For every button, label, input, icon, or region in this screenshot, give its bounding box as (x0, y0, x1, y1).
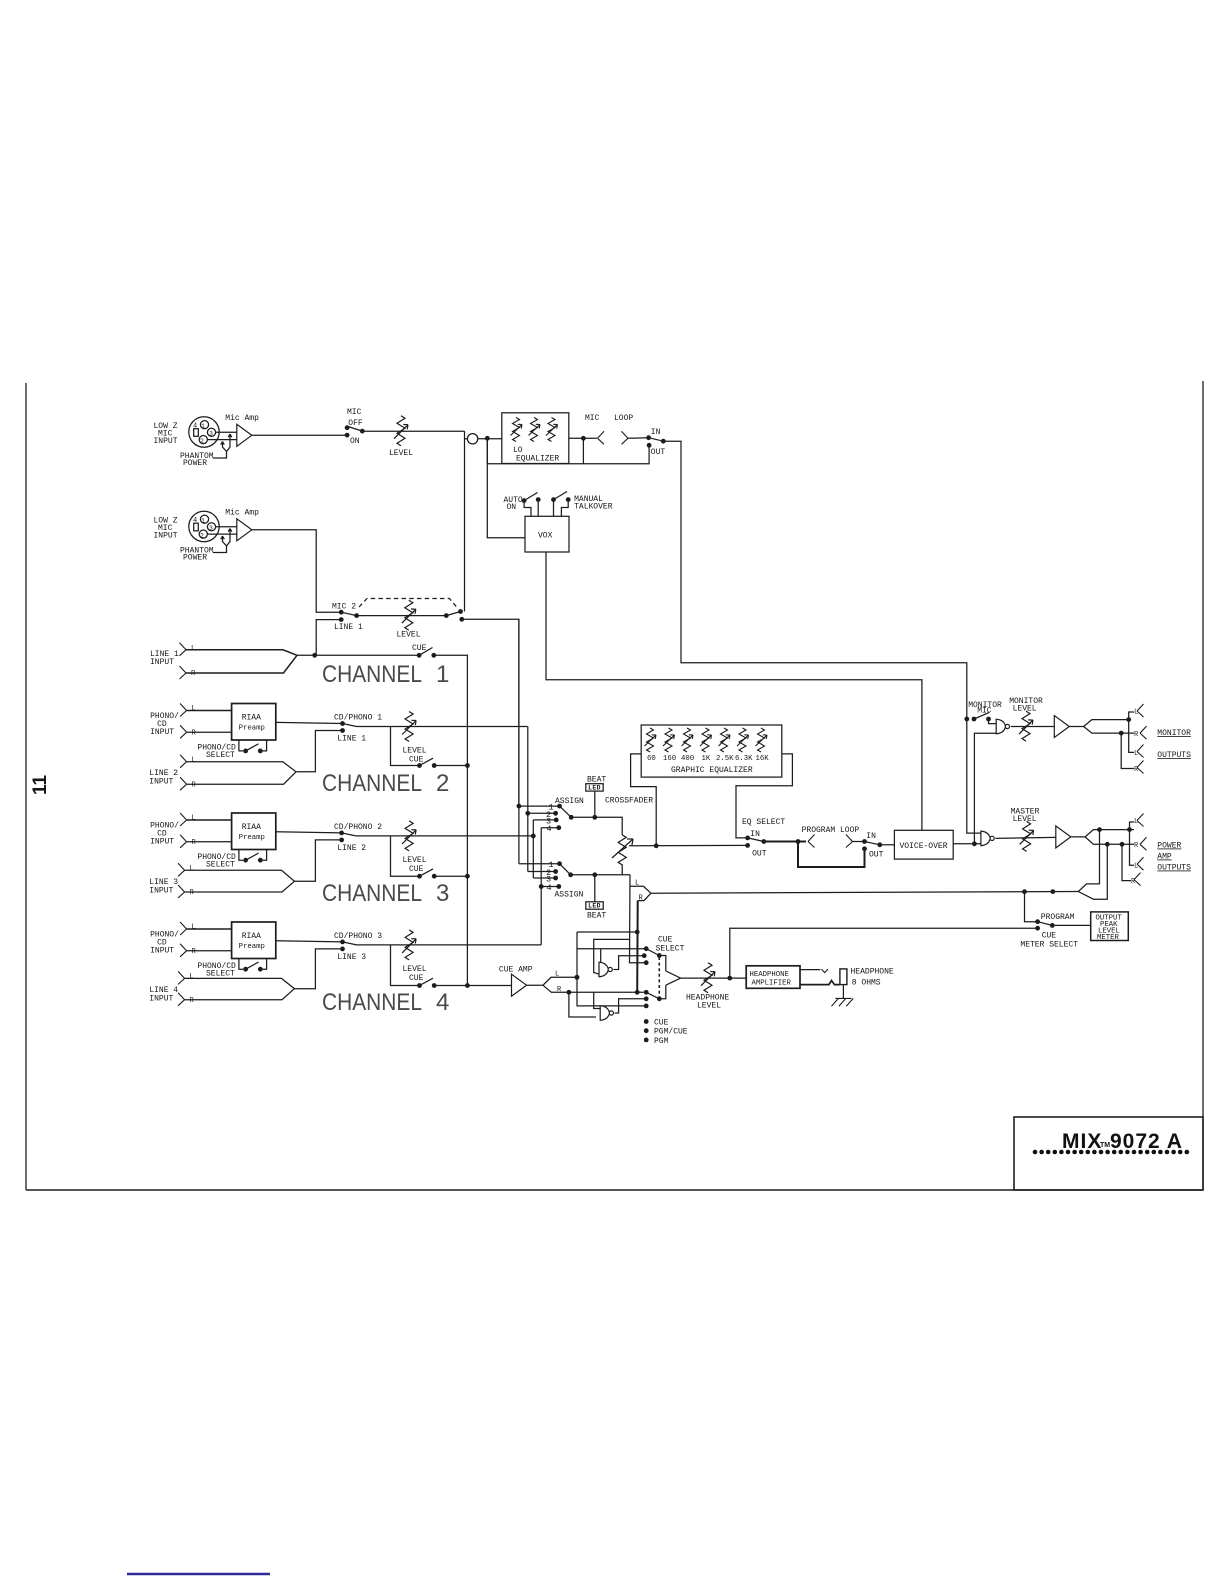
svg-text:2.5K: 2.5K (716, 755, 734, 763)
svg-text:LEVEL: LEVEL (1013, 815, 1037, 824)
svg-text:Preamp: Preamp (239, 725, 265, 733)
svg-text:LEVEL: LEVEL (697, 1002, 721, 1011)
svg-text:ASSIGN: ASSIGN (555, 891, 584, 900)
bus 4 (540, 828, 542, 945)
wire phones out tip (800, 969, 821, 971)
svg-text:POWER: POWER (183, 459, 207, 468)
wire RIAA out (276, 722, 343, 723)
svg-text:11: 11 (30, 775, 51, 796)
wire PGM L vertical (630, 875, 647, 963)
jack mic loop return (622, 431, 629, 444)
svg-text:R: R (192, 948, 197, 956)
svg-text:RIAA: RIAA (242, 932, 261, 941)
wire tangle h1 (577, 931, 637, 933)
wire to bus 1 (462, 619, 519, 806)
svg-text:LEVEL: LEVEL (403, 965, 427, 974)
wire PGM line (651, 892, 1078, 894)
svg-text:1: 1 (201, 423, 205, 430)
logo dot row (1033, 1150, 1038, 1155)
switch mic loop IN/OUT (646, 435, 651, 440)
svg-text:TM: TM (1100, 1142, 1110, 1149)
svg-text:SELECT: SELECT (206, 969, 235, 978)
wire ch4 to bus 4 (357, 944, 542, 946)
svg-text:400: 400 (681, 755, 694, 763)
bus 3 (532, 820, 534, 878)
phantom power feed arrows mic2 (213, 546, 227, 553)
svg-text:16K: 16K (756, 755, 770, 763)
svg-text:CD/PHONO 2: CD/PHONO 2 (334, 823, 382, 832)
svg-text:2: 2 (436, 770, 449, 797)
potentiometer mic LEVEL (394, 416, 408, 446)
svg-text:MIX: MIX (1062, 1130, 1102, 1153)
wire cue-R tap to node R top (594, 992, 601, 1008)
svg-text:L: L (192, 705, 196, 713)
svg-text:LEVEL: LEVEL (1013, 705, 1037, 714)
speaker HEADPHONE 8 OHMS (840, 969, 847, 985)
jack MONITOR OUT 1 L (1129, 712, 1134, 720)
jack MONITOR OUT 2 L (1129, 720, 1134, 753)
switch ASSIGN A (517, 804, 522, 809)
wire VO monitor tap (974, 733, 996, 844)
svg-text:R: R (1134, 842, 1139, 850)
svg-text:1K: 1K (702, 755, 711, 763)
wire through level pot (357, 615, 447, 617)
switch MANUAL TALKOVER (551, 497, 556, 502)
jack LINE 2 INPUT L (180, 755, 187, 768)
svg-text:POWER: POWER (183, 554, 207, 563)
wire RIAA out ch3 (276, 832, 342, 833)
patch point (464, 431, 466, 446)
svg-text:PGM: PGM (654, 1037, 669, 1046)
XLR connector J1 (189, 417, 219, 447)
jack LINE 3 INPUT L (178, 863, 185, 876)
svg-text:INPUT: INPUT (150, 838, 174, 847)
svg-text:CUE AMP: CUE AMP (499, 966, 533, 975)
svg-text:L: L (1134, 818, 1138, 826)
svg-text:OUT: OUT (869, 851, 884, 860)
jack program loop return (846, 835, 853, 848)
jack program loop send (808, 835, 815, 848)
wire to headphone level (681, 977, 747, 979)
switch PHONO/CD SELECT ch3 (239, 850, 267, 861)
crossfader VR (618, 835, 626, 876)
wire switch to patch point (362, 430, 464, 432)
svg-text:L: L (192, 815, 196, 823)
wire meter merge funnel (1078, 830, 1107, 900)
wire node L out to contact 2 (614, 956, 645, 970)
RIAA preamp U2 (232, 704, 276, 741)
wire to meter (1052, 924, 1090, 926)
svg-text:INPUT: INPUT (154, 437, 178, 446)
svg-text:R: R (639, 895, 644, 903)
jack PHONO/CD 1 input L (180, 704, 187, 717)
jack PHONO/CD 1 input R (180, 725, 187, 738)
svg-text:IN: IN (651, 428, 661, 437)
jack MONITOR OUT 2 R (1121, 733, 1134, 768)
bus 1 (518, 619, 520, 863)
jack mic loop send (598, 431, 605, 444)
svg-text:LEVEL: LEVEL (403, 747, 427, 756)
svg-text:9072 A: 9072 A (1110, 1130, 1183, 1153)
svg-text:ASSIGN: ASSIGN (555, 797, 584, 806)
GRAPHIC EQUALIZER box (641, 725, 782, 777)
svg-text:LINE 3: LINE 3 (337, 953, 366, 962)
svg-text:R: R (192, 839, 197, 847)
LED beat upper (586, 784, 603, 791)
svg-text:EQ SELECT: EQ SELECT (742, 818, 785, 827)
svg-text:160: 160 (663, 755, 676, 763)
svg-text:2: 2 (200, 438, 204, 445)
assign A contact wires (519, 805, 560, 807)
summing node monitor (996, 719, 1009, 734)
jack POWER AMP OUT 1 R (1140, 837, 1147, 850)
blue footer line (127, 1573, 270, 1575)
potentiometer ch1 LEVEL (402, 600, 416, 630)
op-amp Mic Amp 1 (237, 424, 252, 446)
svg-text:HEADPHONE: HEADPHONE (750, 971, 789, 979)
svg-text:GRAPHIC EQUALIZER: GRAPHIC EQUALIZER (671, 766, 753, 775)
svg-text:3: 3 (209, 431, 213, 438)
svg-text:L: L (1134, 750, 1138, 758)
potentiometer HEADPHONE LEVEL (701, 963, 715, 993)
wire amp2 to MIC2 contact (252, 530, 341, 612)
switch MONITOR MIC (964, 717, 969, 722)
wire cue-L tap to node top (600, 949, 602, 965)
svg-text:SELECT: SELECT (206, 860, 235, 869)
svg-text:CUE: CUE (412, 644, 427, 653)
node ch1 line riser (312, 653, 317, 658)
svg-text:CD/PHONO 1: CD/PHONO 1 (334, 714, 382, 723)
svg-text:BEAT: BEAT (587, 912, 606, 921)
RIAA preamp U4 (232, 922, 276, 959)
svg-text:4: 4 (436, 989, 449, 1016)
wire cue feed to meter select (730, 928, 1038, 978)
svg-text:Preamp: Preamp (239, 943, 265, 951)
svg-text:LEVEL: LEVEL (389, 449, 413, 458)
op-amp Mic Amp 2 (237, 519, 252, 541)
svg-text:MIC: MIC (977, 707, 992, 716)
svg-text:R: R (192, 782, 197, 790)
wire pin2 to amp (207, 439, 236, 441)
VOICE-OVER box (894, 830, 953, 859)
wire mic2 riser to patch point (464, 446, 466, 612)
svg-text:4: 4 (547, 883, 552, 893)
summing node phones R (600, 1006, 613, 1021)
wire pin3 to amp (216, 431, 237, 433)
wire line3 merge funnel (185, 870, 295, 892)
potentiometer MONITOR LEVEL (1019, 711, 1033, 741)
gang link dashed (359, 599, 457, 608)
wire cue-L to contact 1 (577, 948, 646, 950)
potentiometer ch4 LEVEL (402, 930, 416, 960)
potentiometer ch3 LEVEL (402, 821, 416, 851)
svg-text:OUT: OUT (752, 850, 767, 859)
svg-text:Mic Amp: Mic Amp (225, 509, 259, 518)
node mic bus junction (485, 436, 490, 441)
svg-text:CUE: CUE (409, 974, 424, 983)
svg-text:LINE 2: LINE 2 (337, 844, 366, 853)
svg-text:L: L (635, 880, 639, 888)
wire line4 merge funnel (185, 978, 295, 999)
switch PHONO/CD SELECT ch2 (239, 740, 267, 751)
svg-text:CROSSFADER: CROSSFADER (605, 797, 653, 806)
wire crossfader wiper out (629, 844, 748, 846)
svg-text:4: 4 (547, 824, 552, 834)
svg-text:INPUT: INPUT (149, 995, 173, 1004)
switch CD/PHONO 3 / LINE 3 (340, 940, 345, 945)
jack PHONO/CD 3 input R (180, 944, 187, 957)
switch PROGRAM LOOP IN/OUT (862, 839, 867, 844)
svg-text:LOOP: LOOP (614, 414, 633, 423)
wire pin3 to amp2 (216, 526, 237, 528)
switch AUTO ON (522, 498, 527, 503)
svg-text:VOICE-OVER: VOICE-OVER (900, 842, 948, 851)
svg-text:ON: ON (350, 437, 360, 446)
wire VOX output to voice-over (546, 552, 922, 830)
svg-text:L: L (192, 924, 196, 932)
svg-text:L: L (1134, 709, 1138, 717)
svg-text:R: R (191, 670, 196, 678)
op-amp master (1056, 826, 1071, 848)
svg-text:MIC 2: MIC 2 (332, 603, 356, 612)
svg-text:OUT: OUT (651, 448, 666, 457)
jack POWER AMP OUT 1 L (1130, 822, 1135, 830)
jack MONITOR OUT 1 R (1140, 726, 1147, 739)
svg-text:METER SELECT: METER SELECT (1020, 941, 1078, 950)
wire ch3 cue tap (391, 836, 420, 876)
wire pin2 to amp2 (207, 533, 236, 535)
wire phones out to speaker (800, 981, 840, 985)
wire cue tap ch1 (315, 654, 419, 656)
wire assign A to crossfader top (571, 817, 622, 835)
svg-text:INPUT: INPUT (150, 947, 174, 956)
svg-text:8 OHMS: 8 OHMS (852, 979, 881, 988)
wire tangle v1 cue-L riser (577, 932, 646, 1006)
switch CD/PHONO 1 / LINE 1 (340, 721, 345, 726)
svg-text:OUTPUTS: OUTPUTS (1157, 864, 1191, 873)
potentiometer ch2 LEVEL (402, 712, 416, 742)
wire PGM split funnel to headphone feed (630, 886, 651, 900)
svg-text:AMPLIFIER: AMPLIFIER (752, 979, 792, 987)
svg-text:2: 2 (200, 533, 204, 540)
svg-text:MONITOR: MONITOR (1157, 729, 1191, 738)
wire box to loop send (569, 437, 597, 439)
OUTPUT PEAK LEVEL METER box (1091, 912, 1129, 941)
svg-text:PGM/CUE: PGM/CUE (654, 1028, 688, 1037)
svg-text:INPUT: INPUT (150, 658, 174, 667)
gang link dashed cue select (658, 957, 660, 997)
svg-text:R: R (192, 730, 197, 738)
wire GEQ left to crossfader line (631, 754, 657, 846)
wire eq select to program loop (764, 841, 806, 843)
svg-text:L: L (192, 757, 196, 765)
switch ASSIGN B (519, 863, 560, 865)
svg-text:PROGRAM LOOP: PROGRAM LOOP (802, 826, 860, 835)
wire pgm-R tap to node R bottom (569, 992, 596, 1017)
svg-text:3: 3 (436, 880, 449, 907)
wire cue split funnel (527, 977, 577, 992)
ground (832, 998, 854, 1006)
VOX box (525, 516, 569, 552)
svg-text:R: R (1134, 731, 1139, 739)
svg-text:1: 1 (201, 518, 205, 525)
svg-text:CUE: CUE (409, 865, 424, 874)
jack PHONO/CD 3 input L (180, 922, 187, 935)
wire return to IN contact (628, 437, 649, 440)
jack LINE 2 INPUT R (180, 777, 187, 790)
svg-text:R: R (1131, 878, 1136, 886)
HEADPHONE AMPLIFIER box (746, 966, 800, 989)
svg-text:ON: ON (507, 503, 517, 512)
svg-text:CHANNEL: CHANNEL (322, 770, 422, 797)
wire assign B to crossfader bottom (571, 874, 630, 876)
svg-text:CUE: CUE (658, 936, 673, 945)
bus 2 (527, 727, 529, 872)
svg-text:L: L (191, 645, 195, 653)
wire ch4 cue tap (391, 945, 420, 986)
svg-text:BEAT: BEAT (587, 776, 606, 785)
legend dots (644, 1019, 649, 1024)
jack LINE 1 INPUT R (180, 666, 187, 679)
switch MIC OFF/ON (345, 425, 350, 430)
svg-text:LEVEL: LEVEL (397, 631, 421, 640)
svg-text:1: 1 (436, 661, 449, 688)
svg-text:OFF: OFF (348, 419, 363, 428)
svg-text:R: R (1134, 766, 1139, 774)
frame bottom border (26, 1189, 1203, 1191)
jack LINE 3 INPUT R (178, 885, 185, 898)
op-amp monitor (1054, 716, 1069, 738)
svg-text:AMP: AMP (1157, 853, 1172, 862)
svg-text:IN: IN (866, 832, 876, 841)
svg-text:LINE 1: LINE 1 (337, 735, 366, 744)
wire line2 merge funnel (187, 762, 296, 785)
svg-text:RIAA: RIAA (242, 823, 261, 832)
switch ch2 CUE (417, 763, 422, 768)
switch PHONO/CD SELECT ch4 (239, 959, 267, 970)
svg-text:CHANNEL: CHANNEL (322, 661, 422, 688)
switch ch1 CUE (417, 653, 422, 658)
node ch3 line joins bus 3 (531, 834, 536, 839)
switch CD/PHONO 2 / LINE 2 (339, 831, 344, 836)
wire ch3 to bus 3 (356, 835, 534, 837)
switch CUE SELECT 6 contacts (644, 946, 649, 951)
svg-text:EQUALIZER: EQUALIZER (516, 455, 559, 464)
jack PHONO/CD 2 input L (180, 813, 187, 826)
wire cue-R line to contact (569, 991, 646, 993)
wire RIAA out ch4 (276, 941, 343, 942)
svg-text:SELECT: SELECT (206, 751, 235, 760)
svg-text:R: R (190, 889, 195, 897)
svg-text:L: L (190, 865, 194, 873)
svg-text:LED: LED (588, 903, 601, 910)
svg-text:POWER: POWER (1157, 842, 1181, 851)
svg-text:HEADPHONE: HEADPHONE (851, 968, 894, 977)
svg-text:L: L (190, 973, 194, 981)
jack PHONO/CD 2 input R (180, 835, 187, 848)
svg-text:CUE: CUE (654, 1019, 669, 1028)
frame right border (1202, 381, 1204, 1190)
svg-text:CUE: CUE (1042, 932, 1057, 941)
svg-text:Preamp: Preamp (239, 834, 265, 842)
svg-text:6.3K: 6.3K (735, 755, 753, 763)
wire speaker to ground (842, 985, 844, 999)
wire line1 merge funnel (186, 650, 297, 673)
jack POWER AMP OUT 2 R (1122, 844, 1131, 880)
jack LINE 4 INPUT L (178, 971, 185, 984)
svg-text:IN: IN (750, 830, 760, 839)
svg-text:INPUT: INPUT (149, 887, 173, 896)
LO EQUALIZER box (502, 413, 569, 464)
switch MIC 2 / LINE 1 (339, 610, 344, 615)
svg-text:OUTPUTS: OUTPUTS (1157, 751, 1191, 760)
wire ch2 to bus 2 (357, 726, 528, 728)
summing node phones L (599, 962, 612, 977)
switch ch3 CUE (417, 874, 422, 879)
wire cue bus to cue amp (467, 985, 511, 987)
switch ch1 route (mic bus / bus 1) (444, 613, 449, 618)
svg-text:L: L (1134, 863, 1138, 871)
svg-text:CHANNEL: CHANNEL (322, 989, 422, 1016)
frame left border (25, 383, 27, 1190)
wire node to master level (996, 837, 1056, 838)
svg-text:CHANNEL: CHANNEL (322, 880, 422, 907)
wire select merge funnel (659, 956, 680, 999)
svg-text:INPUT: INPUT (150, 728, 174, 737)
jack LINE 1 INPUT L (180, 643, 187, 656)
svg-text:SELECT: SELECT (656, 945, 685, 954)
switch METER SELECT (1025, 892, 1038, 922)
wire loop bypass under box (487, 438, 649, 463)
svg-text:4: 4 (193, 517, 197, 525)
switch ch4 CUE (417, 983, 422, 988)
wire to voice-over (880, 844, 895, 846)
wire mic line A to right (663, 441, 981, 833)
svg-text:60: 60 (647, 755, 656, 763)
switch EQ SELECT (745, 836, 750, 841)
svg-text:L: L (555, 971, 559, 979)
svg-text:MIC: MIC (585, 414, 600, 423)
wire program loop bypass (798, 842, 865, 868)
svg-text:TALKOVER: TALKOVER (574, 503, 613, 512)
wire PGM R vertical (636, 901, 639, 993)
svg-text:INPUT: INPUT (154, 532, 178, 541)
svg-text:3: 3 (209, 525, 213, 532)
node VOX sense tap (487, 438, 525, 538)
wire VO out to master node (953, 843, 981, 845)
XLR connector J2 (189, 511, 219, 541)
LED beat lower (594, 875, 596, 902)
svg-text:LED: LED (588, 785, 601, 792)
wire node to monitor level (1011, 726, 1055, 728)
wire ch1 cue to cue bus (434, 655, 468, 985)
jack POWER AMP OUT 2 L (1130, 830, 1135, 866)
wire pgm-L tap to node (594, 939, 630, 974)
wire amp to switch (252, 434, 347, 436)
svg-text:R: R (190, 997, 195, 1005)
potentiometer MASTER LEVEL (1020, 821, 1034, 851)
svg-text:CD/PHONO 3: CD/PHONO 3 (334, 932, 382, 941)
svg-text:Mic Amp: Mic Amp (225, 414, 259, 423)
svg-text:LINE 1: LINE 1 (334, 623, 363, 632)
jack LINE 4 INPUT R (178, 993, 185, 1006)
wire GEQ right to EQ select IN (736, 754, 792, 838)
svg-text:CUE: CUE (409, 756, 424, 765)
RIAA preamp U3 (232, 813, 276, 850)
master summing node (981, 831, 994, 846)
svg-text:PROGRAM: PROGRAM (1041, 913, 1075, 922)
op-amp CUE AMP (512, 974, 527, 996)
